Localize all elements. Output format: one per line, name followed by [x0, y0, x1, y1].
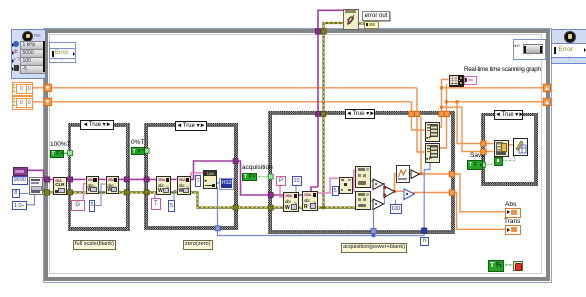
boolean mini constant case4: [494, 157, 503, 166]
type cast conversion icon: [203, 170, 218, 189]
wire blue const case1: [95, 184, 106, 206]
wire orange T5 out: [418, 173, 452, 175]
wire orange bus 2 left: [52, 101, 412, 103]
VISA write icon E: [283, 192, 299, 212]
VISA resource name constant: [13, 167, 28, 176]
xy indicator box: [464, 76, 477, 85]
VISA write icon F: [302, 191, 318, 211]
label Trans: [504, 218, 520, 225]
cluster constant 2: [12, 96, 33, 110]
numeric constant 10: [292, 176, 302, 186]
error in control (left): [49, 42, 76, 63]
wire orange to case4 lower: [442, 107, 494, 151]
while loop border: [43, 28, 552, 283]
VISA write icon A: [86, 176, 99, 194]
label 0%T: [131, 139, 144, 146]
wire pink P constant: [280, 186, 283, 197]
row 1 field 1 kHz: [20, 41, 46, 50]
wire olive error main under: [41, 23, 364, 208]
wire orange cluster1 to left shift register: [32, 87, 45, 89]
error out indicator icon: [364, 21, 379, 30]
wire orange T4 out: [413, 192, 452, 194]
wire pink D to conversion: [191, 173, 203, 176]
wire pink G to H and I: [352, 180, 354, 182]
wire pink F to G: [317, 178, 339, 193]
wire orange bus 1 right: [442, 87, 544, 89]
tunnels case2: [144, 148, 149, 153]
boolean constant 100%T: [50, 150, 65, 158]
wire orange T3 out: [393, 190, 403, 192]
wire olive dashes overlay: [50, 23, 365, 208]
triangle op T1: [372, 178, 385, 191]
wire green case4 file: [502, 154, 515, 160]
label full scale(blank): [73, 240, 116, 250]
case structure 2 (zero): [144, 123, 238, 230]
triangle op T2: [372, 198, 385, 211]
row 2 field 5000: [20, 49, 46, 58]
wire orange to Trans: [452, 193, 505, 230]
boolean constant 0%T: [131, 147, 146, 155]
wire orange drop to case3 tunnel B: [412, 102, 425, 130]
indicator H32: [219, 178, 234, 190]
wire green 100%T: [64, 152, 69, 154]
wire pink T constant: [154, 194, 156, 199]
VISA CLR icon: [53, 177, 67, 195]
string icon I: [355, 191, 371, 210]
constant 8: [12, 189, 21, 198]
indicator Trans: [505, 225, 521, 235]
label zero(zero): [183, 240, 213, 250]
numeric constant case2: [168, 200, 175, 212]
wire orange graph drop 2: [439, 84, 447, 148]
tunnels on loop border: left shift registers: [44, 84, 51, 105]
wire purple iconC to iconD: [170, 178, 176, 180]
wire orange drop to case3 tunnel A: [417, 88, 425, 152]
wire purple visa const to loop: [26, 170, 45, 179]
wire purple top vertical to error handler: [318, 10, 343, 187]
write spreadsheet icon L: [494, 140, 509, 157]
wire blue 8: [19, 193, 29, 195]
cluster constant 1: [12, 82, 33, 96]
label error out: [362, 11, 390, 21]
boolean constant stop: [488, 260, 504, 272]
label acquisition: [242, 164, 273, 171]
junction dots orange: [440, 86, 443, 89]
VISA write icon C: [156, 176, 171, 195]
wire blue conversion to H32 arrow: [216, 182, 219, 184]
triangle op T5: [410, 169, 421, 180]
intensity graph icon: [449, 75, 465, 87]
wire blue 1.0: [26, 194, 35, 205]
wire orange graph drop 1: [439, 80, 449, 128]
numeric constant case1: [89, 200, 96, 212]
tunnel olive on loop top: [321, 29, 326, 34]
tunnels on loop border: right shift registers: [543, 84, 550, 105]
bytes-at-port icon G: [339, 177, 354, 194]
wire orange bus 2 right: [447, 101, 544, 103]
boolean constant Save: [467, 160, 483, 170]
wire purple iconE to iconF: [298, 194, 302, 196]
string icon H: [355, 166, 371, 188]
tunnels case3 left: [268, 174, 273, 179]
triangle op T4: [403, 188, 416, 201]
numeric control top right: [513, 39, 546, 60]
wire orange chart to T5: [409, 173, 410, 175]
bundle icon J: [425, 122, 441, 142]
row 3 field 100: [20, 57, 46, 66]
wire green 0%T: [145, 150, 149, 152]
string constant P: [276, 176, 286, 186]
row 4 field -5: [20, 65, 46, 74]
row input arrows: [12, 43, 14, 47]
numeric constant 5: [332, 186, 339, 197]
wire purple main segment CLR: [50, 178, 53, 180]
waveform chart icon: [396, 165, 410, 183]
wire purple iconB to iconC: [118, 178, 156, 180]
constant 1.0: [12, 201, 27, 210]
case 2 selector True: [175, 121, 207, 131]
label 100%T: [50, 141, 71, 148]
wire orange case4 L to M: [508, 144, 513, 146]
elapsed time express VI (top right): [551, 29, 586, 65]
stop button terminal: [513, 261, 524, 271]
tunnel purple on loop top: [315, 29, 320, 34]
string constant T: [151, 198, 161, 210]
label Save: [470, 152, 485, 159]
case 3 selector True: [345, 109, 375, 119]
enum mini constant: [195, 175, 201, 187]
indicator Abs: [505, 208, 521, 218]
wire blue 10 case3: [295, 185, 297, 192]
label acquisition(power+blank): [341, 243, 407, 253]
numeric constant 100: [390, 204, 402, 214]
wire blue H to T1, I to T2: [370, 180, 373, 182]
case 4 selector True: [494, 110, 523, 120]
wire orange T3 branch to chart: [395, 174, 397, 192]
VISA write icon D: [177, 176, 192, 195]
wire purple case2 exit: [190, 161, 283, 195]
constant 9600: [12, 176, 29, 185]
file dialog icon M: [513, 138, 529, 156]
wire purple iconA to iconB: [98, 178, 106, 180]
wire purple elbow into iconF: [311, 187, 318, 191]
wire orange vertical x421: [420, 117, 422, 174]
tunnels case1: [68, 177, 73, 182]
iteration box n: [420, 237, 429, 247]
wire green save: [483, 164, 494, 166]
tunnels case3 bottom: [371, 229, 376, 234]
wire blue T1 T2 to T3: [383, 184, 385, 189]
simple error handler icon: [343, 9, 359, 30]
tunnel purple on loop left: [45, 177, 50, 182]
case 1 selector True: [80, 120, 114, 130]
VISA configure serial port icon: [29, 177, 43, 196]
wire orange cluster2 to left shift register: [32, 101, 45, 103]
wire blue 100 to T4: [395, 200, 397, 205]
wire purple CLR to iconA: [66, 178, 86, 180]
wire orange bus 1 left: [52, 87, 418, 89]
label Abs: [505, 201, 516, 208]
tunnels case3 right: [449, 172, 454, 177]
scroll bar: [43, 41, 45, 72]
label Real-time time scanning graph: [464, 66, 541, 73]
wire blue long i32: conversion down, along bottom, up into case3: [218, 187, 425, 235]
wire green stop: [502, 264, 514, 266]
case structure 4 (save): [481, 113, 538, 186]
olive junction: [322, 206, 325, 209]
tunnel olive on loop left: [45, 190, 50, 195]
case structure 3 (acquisition): [268, 111, 455, 234]
wire orange to case4 upper: [457, 102, 494, 144]
case structure 1 (full scale): [68, 123, 130, 231]
boolean constant acquisition: [242, 173, 257, 182]
collapse arrow: [26, 71, 30, 77]
timing express VI: [11, 29, 46, 79]
wire orange to Abs: [452, 174, 505, 212]
bundle icon K: [425, 143, 441, 163]
triangle op T3 with coercion dot: [383, 185, 396, 199]
wire blue 9600: [27, 180, 29, 182]
wire green acquisition: [255, 176, 269, 178]
wire blue const case2: [174, 191, 177, 201]
clock icon header: [22, 31, 33, 42]
wire blue 5 to G: [337, 189, 340, 191]
wire pink G constant: [84, 184, 86, 200]
VISA write icon B: [106, 176, 120, 194]
tunnels case3 top: [315, 111, 320, 116]
tunnels case4 left: [481, 141, 486, 146]
string constant G: [71, 200, 85, 212]
